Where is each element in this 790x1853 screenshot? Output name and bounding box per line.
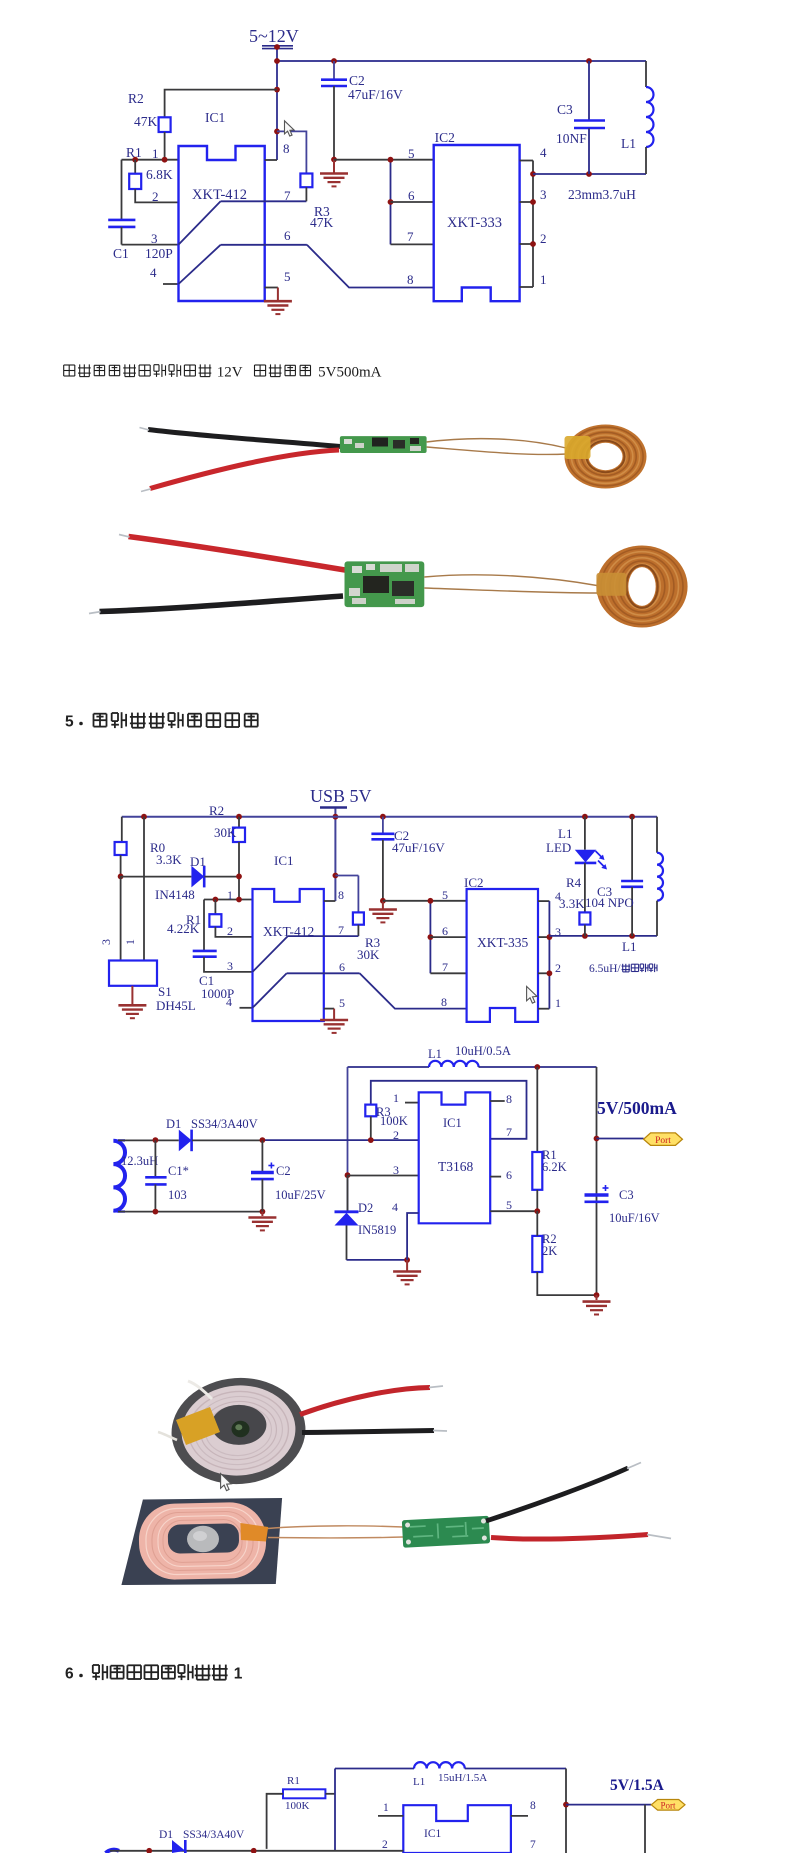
svg-text:6: 6 [506,1168,512,1182]
svg-text:1: 1 [227,888,233,902]
svg-text:5: 5 [442,888,448,902]
IC IC1 T3168 [419,1092,491,1223]
svg-text:5V500mA: 5V500mA [318,365,382,381]
svg-text:6.2K: 6.2K [542,1160,567,1174]
svg-text:3.3K: 3.3K [559,896,585,911]
svg-text:SS34/3A40V: SS34/3A40V [183,1829,245,1841]
svg-text:1: 1 [555,996,561,1010]
svg-text:XKT-333: XKT-333 [447,215,502,231]
svg-text:5~12V: 5~12V [249,26,299,46]
IC1 pin 2 [152,189,159,204]
diode D2 IN5819 [335,1176,397,1260]
inductor L1 15uH [335,1762,566,1788]
IC IC1 XKT-412 [179,110,265,301]
svg-text:C3: C3 [619,1188,634,1202]
photo: copper tape on pad [240,1523,268,1542]
port symbol [651,1800,685,1811]
IC IC2 XKT-333 [434,130,520,301]
svg-text:IC1: IC1 [274,853,294,868]
svg-text:C2: C2 [276,1164,291,1178]
photo: pad coil salmon band [138,1502,267,1581]
IC1 pin 2 [393,1128,399,1142]
svg-text:Port: Port [655,1136,671,1146]
photo: receiver module black lead [89,596,343,614]
photo: transmitter module red lead [141,450,339,492]
IC1 pin 3 [393,1163,399,1177]
photo: receiver coil leads [424,575,600,593]
svg-text:12V: 12V [217,365,243,381]
ground at output [583,1295,611,1314]
resistor R1 100K [283,1775,325,1812]
power net USB 5V label [310,786,372,808]
svg-text:5: 5 [284,269,291,284]
svg-text:IC2: IC2 [464,875,484,890]
svg-text:Port: Port [660,1801,676,1811]
svg-text:LED: LED [546,840,571,855]
ground at IC1 pin 5 [320,1020,348,1033]
IC2 pin 2 [540,231,547,246]
power net 5~12V label [249,26,299,49]
IC2 pin 6 [391,188,434,203]
IC2 right pin bus [538,901,552,1009]
svg-text:D1: D1 [159,1829,173,1841]
svg-text:7: 7 [284,188,291,203]
wire D2 to ground net [347,1257,411,1263]
photo: rx pcb green [402,1516,490,1548]
photo: rx pcb black lead [486,1463,641,1522]
svg-text:4: 4 [540,145,547,160]
wire C2 gnd to IC2 pin bus [334,159,434,161]
wire R1 to pin2 [135,189,178,202]
svg-text:R4: R4 [566,875,582,890]
photo: receiver coil [596,546,687,628]
wire tank bottom [549,933,657,939]
svg-text:47uF/16V: 47uF/16V [392,840,445,855]
resistor R2 [209,803,245,900]
svg-text:4: 4 [150,265,157,280]
svg-text:103: 103 [168,1188,187,1202]
svg-text:15uH/1.5A: 15uH/1.5A [438,1772,487,1784]
IC IC1 body [403,1805,511,1853]
wire rail left vertical [345,1067,351,1212]
svg-text:C1: C1 [113,246,129,261]
svg-text:D2: D2 [358,1201,373,1215]
ground at S1 [118,1005,146,1018]
svg-text:2: 2 [540,231,547,246]
IC IC1 XKT-412 [253,853,324,1021]
photo: transmitter module black lead [140,428,341,447]
IC1 pin 1 [227,888,233,902]
svg-text:4: 4 [226,995,232,1009]
cursor pointer [285,121,295,136]
wire pin4 stub [163,283,179,285]
svg-text:6: 6 [339,960,345,974]
IC1 pin 4 [226,995,232,1009]
IC IC2 XKT-335 [464,875,538,1022]
IC1 pin 2 [382,1839,388,1851]
svg-text:7: 7 [506,1125,512,1139]
photo: pad center disc [187,1526,219,1552]
IC2 pin 8 [441,995,447,1009]
photo: transmitter PCB [340,436,427,453]
IC2 pin 5 [408,146,415,161]
svg-text:8: 8 [338,888,344,902]
IC2 pin 5 [442,888,448,902]
svg-text:8: 8 [283,141,290,156]
pin7 loop over IC [371,1081,527,1139]
inductor L1 coil [621,61,654,174]
IC2 pin 6 [442,924,448,938]
IC1 pin 6 diagonal net to IC2 pin 8 [253,960,467,1009]
svg-text:8: 8 [407,272,414,287]
caption line: standard module photo, tx 12V rx 5V500mA [64,364,382,380]
svg-text:1: 1 [540,272,547,287]
wire pin4 stub [240,1007,253,1009]
wire pin3 [122,244,179,246]
diode D1 IN4148 [121,854,239,902]
wire pin2 net [262,1137,418,1143]
resistor R3 [277,131,334,230]
IC1 pin 7 [530,1839,536,1851]
svg-text:XKT-335: XKT-335 [477,935,529,950]
IC2 pin 1 [540,272,547,287]
svg-text:3: 3 [227,959,233,973]
svg-text:C3: C3 [557,102,573,117]
L1 coil value label [589,963,657,975]
svg-text:8: 8 [441,995,447,1009]
svg-text:104 NPO: 104 NPO [585,895,634,910]
wire pin1 net [122,157,179,163]
svg-text:USB 5V: USB 5V [310,786,372,806]
wire pin3 net [348,1175,419,1177]
svg-text:2: 2 [152,189,159,204]
svg-text:D1: D1 [166,1117,181,1131]
IC1 pin 8 stub [490,1092,512,1106]
wire USB vertical [333,809,339,902]
svg-text:2: 2 [227,924,233,938]
svg-text:DH45L: DH45L [156,998,196,1013]
L1 value label [568,187,636,202]
svg-text:C1*: C1* [168,1164,189,1178]
svg-text:1: 1 [152,146,159,161]
svg-text:47K: 47K [134,114,158,129]
svg-text:3.3K: 3.3K [156,852,182,867]
svg-text:6: 6 [442,924,448,938]
IC1 pin 1 [152,146,159,161]
wire to port [597,1138,644,1140]
svg-text:100K: 100K [285,1800,310,1812]
IC2 pin 1 [555,996,561,1010]
photo: pad to pcb leads [268,1526,403,1538]
svg-text:2: 2 [382,1839,388,1851]
resistor R2 2K [532,1211,596,1295]
heading 6: universal receiver circuit 1 [65,1664,243,1682]
wire power vertical [276,48,278,160]
svg-text:IN5819: IN5819 [358,1223,396,1237]
svg-text:5: 5 [339,996,345,1010]
svg-text:6: 6 [65,1666,74,1683]
output label 5V/500mA [597,1098,677,1118]
wire top bus [122,814,657,820]
IC1 pin 4 [150,265,157,280]
wire top bus [277,60,646,62]
svg-text:4.22K: 4.22K [167,921,200,936]
photo: transmitter coil [565,425,647,489]
svg-text:IC1: IC1 [443,1116,462,1130]
IC1 pin 7 [506,1125,512,1139]
wire pin1 net [204,897,253,903]
receiver coil 12.3uH [113,1140,158,1211]
heading 5: magnetic control circuit [65,712,258,730]
IC2 right pin bus [520,161,536,288]
IC1 pin 3 [227,959,233,973]
svg-text:1: 1 [234,1666,243,1683]
svg-text:7: 7 [338,923,344,937]
wire pin4 down [407,1213,419,1260]
IC1 pin 8 [324,888,344,902]
port symbol [644,1133,683,1146]
resistor R2 [128,91,171,132]
wire output vertical [594,1067,600,1298]
svg-text:4: 4 [392,1200,398,1214]
IC1 pin 3 [151,231,158,246]
svg-text:IC1: IC1 [205,110,225,125]
IC1 pin 1 [393,1091,399,1105]
diode D1 SS34 [159,1829,245,1853]
wire S1 pin3 [99,876,121,960]
svg-text:5: 5 [408,146,415,161]
IC2 pin 7 [391,229,434,244]
svg-text:23mm3.7uH: 23mm3.7uH [568,187,636,202]
svg-text:C2: C2 [349,73,365,88]
photo: white hookup wires [158,1381,212,1440]
wire R1 right branch [325,1769,335,1851]
diode D1 SS34 [166,1117,265,1151]
svg-text:5V/500mA: 5V/500mA [597,1098,677,1118]
capacitor C1* 103 [145,1140,189,1211]
IC2 pin 8 [407,272,414,287]
svg-text:30K: 30K [357,947,380,962]
svg-text:3: 3 [393,1163,399,1177]
IC2 pin 4 [540,145,547,160]
svg-text:L1: L1 [558,826,572,841]
IC1 pin 8 [265,141,290,160]
resistor R1 [126,145,173,189]
svg-text:L1: L1 [428,1047,442,1061]
photo: square rx pad [121,1498,282,1585]
wire S1 pin1 [123,817,144,961]
svg-text:2K: 2K [542,1244,557,1258]
svg-text:D1: D1 [190,854,206,869]
svg-text:T3168: T3168 [438,1159,473,1174]
IC1 pin 5 [490,1198,537,1212]
IC1 pin 7 internal diagonal [179,188,307,245]
svg-text:R1: R1 [287,1775,300,1787]
wire output branch [563,1769,651,1853]
IC2 pin 7 [442,960,448,974]
node C2 bottom / ground net [331,157,337,173]
IC1 pin 6 stub [490,1168,512,1182]
svg-text:8: 8 [506,1092,512,1106]
capacitor C3 [585,817,643,936]
IC1 pin 5 to ground [265,269,291,301]
IC1 pin 2 [227,924,233,938]
svg-text:3: 3 [99,939,113,945]
IC1 pin 7 internal diagonal [253,923,359,972]
resistor R0 [115,817,183,877]
svg-text:30K: 30K [214,825,237,840]
svg-text:2: 2 [393,1128,399,1142]
sensor S1 DH45L [109,961,196,1014]
ground at D2 [393,1260,421,1285]
svg-text:6: 6 [284,228,291,243]
IC1 pin 4 [392,1200,398,1214]
photo: round coil red lead [300,1386,443,1415]
svg-text:10uH/0.5A: 10uH/0.5A [455,1044,511,1058]
svg-text:7: 7 [442,960,448,974]
svg-text:47uF/16V: 47uF/16V [348,87,403,102]
inductor L1 coil [622,817,663,954]
svg-text:3: 3 [151,231,158,246]
IC1 pin 5 to ground [324,996,345,1020]
svg-text:R1: R1 [126,145,142,160]
LED L1 [546,817,607,870]
cursor pointer 3 [221,1474,232,1491]
svg-text:5: 5 [506,1198,512,1212]
svg-text:10uF/25V: 10uF/25V [275,1188,326,1202]
wire R2 bottom [164,132,166,160]
svg-text:5: 5 [65,714,74,731]
svg-text:L1: L1 [621,136,636,151]
svg-text:IN4148: IN4148 [155,887,195,902]
svg-text:47K: 47K [310,215,334,230]
ground at C2 [248,1212,276,1231]
photo: transmitter coil leads [427,439,567,455]
svg-text:IC1: IC1 [424,1828,442,1840]
svg-text:10NF: 10NF [556,131,587,146]
IC2 left pin bus [388,157,394,245]
resistor R1 [167,900,253,937]
receiver coil partial [106,1850,119,1853]
svg-text:1: 1 [383,1802,389,1814]
svg-text:3: 3 [540,187,547,202]
capacitor C3 [556,58,605,174]
node C2 bottom ground [380,898,386,909]
ground at C2 [369,910,397,923]
resistor R3 100K [365,1105,407,1141]
svg-text:10uF/16V: 10uF/16V [609,1211,660,1225]
wire C2 to IC2 bus [383,900,467,902]
IC2 pin 2 [555,961,561,975]
capacitor C1 [108,160,173,261]
wire R2 top branch [165,90,277,118]
svg-text:7: 7 [407,229,414,244]
capacitor C1 [193,900,253,1002]
svg-text:IC2: IC2 [435,130,455,145]
svg-text:8: 8 [530,1800,536,1812]
svg-text:7: 7 [530,1839,536,1851]
photo: rx pcb red lead [491,1535,671,1540]
cursor pointer 2 [527,986,537,1003]
svg-text:6: 6 [408,188,415,203]
wire input net [110,1848,403,1853]
capacitor C2 [321,58,403,159]
resistor R4 [559,863,590,936]
IC2 pin 3 [555,925,561,939]
capacitor C3 10uF/16V [585,1185,660,1225]
photo: yellow tape tab [176,1407,220,1445]
IC1 pin 1 [378,1802,403,1816]
ground at C2 [320,174,348,187]
IC2 pin 4 [555,889,561,903]
output label 5V/1.5A [610,1777,665,1794]
svg-text:R2: R2 [209,803,224,818]
wire pin1 stub [405,1102,419,1104]
svg-text:R2: R2 [128,91,144,106]
svg-text:S1: S1 [158,984,172,999]
svg-text:6.8K: 6.8K [146,167,173,182]
node power junction [274,44,280,134]
wire S1 to ground [131,986,133,1005]
svg-text:L1: L1 [622,939,636,954]
capacitor C2 [371,817,445,901]
photo: receiver PCB [345,561,425,607]
resistor R1 6.2K [532,1067,566,1214]
wire tank bottom [533,171,646,177]
ground at IC1 pin5 [264,301,292,314]
IC1 pin 8 [511,1800,536,1816]
IC1 pin 6 internal diagonal and net to IC2 pin 8 [179,228,434,288]
svg-text:SS34/3A40V: SS34/3A40V [191,1117,258,1131]
wire coil top net [118,1137,179,1143]
wire coil bottom net [118,1209,265,1215]
svg-text:2: 2 [555,961,561,975]
svg-text:L1: L1 [413,1776,425,1788]
svg-text:3: 3 [555,925,561,939]
inductor L1 10uH choke [348,1044,597,1070]
svg-text:5V/1.5A: 5V/1.5A [610,1777,665,1794]
svg-text:1: 1 [393,1091,399,1105]
photo: round coil black lead [302,1431,447,1433]
IC2 left pin bus [428,898,467,973]
svg-text:12.3uH: 12.3uH [121,1154,158,1168]
photo: round tx coil disk [168,1373,309,1488]
node D1 anode [118,874,124,880]
wire R1 left branch [267,1794,283,1849]
svg-text:6.5uH/: 6.5uH/ [589,963,621,975]
svg-text:1: 1 [123,939,137,945]
IC2 pin 3 [540,187,547,202]
photo: receiver module red lead [119,535,345,571]
resistor R3 [335,876,380,963]
capacitor C2 10uF/25V [251,1140,326,1211]
svg-text:120P: 120P [145,246,173,261]
svg-text:100K: 100K [380,1114,408,1128]
